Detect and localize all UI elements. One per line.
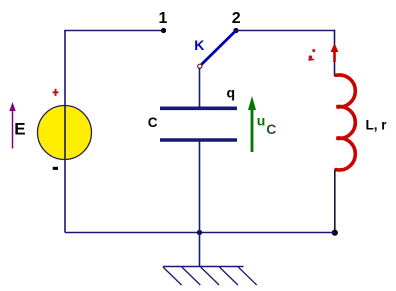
emf arrow E (purple)	[9, 102, 15, 149]
ground bar	[163, 266, 244, 268]
wire bottom horizontal	[65, 232, 335, 234]
capacitor C bottom plate	[160, 138, 237, 142]
switch K blade	[201, 31, 236, 65]
svg-text:E: E	[14, 120, 25, 139]
switch K pivot contact	[198, 64, 202, 68]
wire capacitor branch upper	[199, 68, 201, 108]
capacitor C top plate	[160, 107, 237, 111]
node 2	[233, 28, 238, 33]
ground hatch 2	[182, 267, 201, 285]
ground hatch 5	[238, 267, 257, 285]
source G1 (cell, yellow)	[38, 106, 92, 160]
inductor L1 coil	[335, 75, 356, 170]
node capacitor-ground junction	[197, 230, 202, 235]
wire top left horizontal	[64, 30, 163, 32]
ground hatch 4	[219, 267, 238, 285]
wire left vertical	[64, 31, 66, 233]
svg-text:L, r: L, r	[366, 118, 388, 133]
node 1	[161, 28, 166, 33]
svg-text:u: u	[257, 113, 266, 129]
svg-text:C: C	[266, 121, 276, 137]
current arrow i (red)	[331, 43, 339, 62]
node bottom right junction	[332, 230, 338, 236]
wire right vertical upper	[334, 30, 336, 76]
svg-text:2: 2	[232, 10, 241, 27]
wire capacitor branch lower / ground stem	[199, 140, 201, 266]
wire right vertical lower	[334, 170, 336, 233]
voltage arrow uC (green)	[248, 96, 256, 152]
ground hatch 1	[163, 267, 182, 285]
label + (source polarity)	[53, 89, 59, 96]
svg-text:K: K	[194, 37, 204, 53]
label - (source polarity)	[53, 167, 58, 170]
ground hatch 3	[201, 267, 220, 285]
label i	[308, 49, 315, 61]
svg-text:1: 1	[159, 10, 168, 27]
svg-text:q: q	[227, 85, 236, 101]
svg-text:C: C	[148, 115, 158, 130]
wire top right horizontal	[236, 30, 335, 32]
